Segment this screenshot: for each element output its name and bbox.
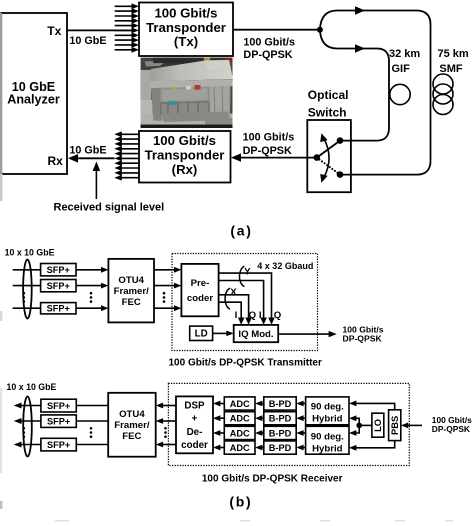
svg-text:coder: coder: [181, 440, 208, 451]
label: 100 Gbit/s DP-QPSK (rx): [243, 132, 295, 157]
bundle ellipse (tx): [23, 260, 32, 319]
svg-text:OTU4: OTU4: [119, 409, 145, 420]
svg-text:10 GbE: 10 GbE: [69, 35, 106, 47]
arrow: B-PD2 to ADC2: [255, 415, 264, 421]
switch: dotted contact arm: [317, 158, 340, 175]
svg-text:ADC: ADC: [230, 414, 250, 424]
node: splitter junction: [317, 27, 323, 33]
arrow: ADC4 to DSP: [213, 445, 224, 451]
arrow: X-Q into IQ Mod: [238, 318, 245, 325]
dots (tx left): [23, 292, 26, 303]
svg-text:Hybrid: Hybrid: [312, 413, 343, 424]
svg-text:+: +: [192, 414, 198, 425]
box: Pre-coder: [181, 264, 218, 316]
box: LD: [190, 326, 213, 340]
svg-text:75 km: 75 km: [438, 48, 469, 60]
arrow: tx fan row 7: [115, 32, 139, 38]
arrow: Hybrid to B-PD2: [296, 415, 305, 421]
box: ADC 2: [224, 412, 255, 425]
svg-text:LD: LD: [195, 329, 208, 340]
box: ADC 3: [224, 426, 255, 439]
wire: X-Q precoder output: [219, 302, 242, 319]
svg-text:Framer/: Framer/: [114, 286, 150, 297]
box: LO: [372, 413, 384, 437]
svg-text:OTU4: OTU4: [118, 275, 144, 286]
svg-text:ADC: ADC: [230, 428, 250, 438]
labels: I Q I Q: [235, 310, 282, 321]
arrow: tx fan row 4: [115, 18, 139, 24]
arrow: tx fan main row: [115, 28, 139, 34]
arrow: ADC1 to DSP: [213, 401, 224, 407]
arrow: tx fan row 8: [115, 37, 139, 43]
box: IQ Mod.: [234, 325, 279, 342]
scan-edge gray strip: [0, 13, 2, 509]
label: 75 km SMF: [438, 48, 469, 75]
bundle arc X: [225, 288, 230, 309]
svg-text:10 x 10 GbE: 10 x 10 GbE: [7, 382, 57, 392]
switch: lower port node: [337, 171, 344, 178]
box: 90 deg. Hybrid 1: [306, 397, 349, 425]
wire: LO branch to Hybrid 1: [349, 415, 359, 425]
wire: tx input line 3: [13, 307, 41, 309]
wire: transponder Tx output to node: [233, 29, 320, 31]
arrow: SFP+ to OTU4 line 1: [76, 267, 108, 273]
coil: 32 km GIF fiber: [390, 84, 410, 104]
svg-text:Y: Y: [244, 266, 251, 277]
wire: Y-Q precoder output: [219, 281, 264, 320]
svg-text:B-PD: B-PD: [269, 443, 292, 453]
arrow: Y-I into IQ Mod: [268, 318, 275, 325]
svg-text:Tx: Tx: [47, 24, 61, 38]
dots (rx mid): [90, 427, 93, 438]
arrow: rx fan row 7: [114, 160, 139, 166]
box: SFP+ tx 3: [41, 303, 76, 314]
bundle ellipse (rx): [23, 397, 32, 457]
svg-text:90 deg.: 90 deg.: [311, 402, 344, 413]
arrow: Hybrid to B-PD4: [296, 445, 305, 451]
svg-text:100 Gbit/s DP-QPSK Transmitter: 100 Gbit/s DP-QPSK Transmitter: [169, 358, 322, 369]
arrow: X-I into IQ Mod: [245, 318, 252, 325]
svg-text:PBS: PBS: [389, 416, 400, 435]
switch: toggle arc arrow: [320, 133, 329, 183]
box: ADC 4: [224, 441, 255, 454]
arrow: Hybrid to B-PD3: [296, 430, 305, 436]
box: B-PD 4: [264, 441, 296, 454]
wire: LO to splitter node: [359, 424, 372, 426]
svg-text:Q: Q: [274, 310, 282, 321]
svg-text:ADC: ADC: [230, 443, 250, 453]
svg-text:100 Gbit/s: 100 Gbit/s: [243, 132, 295, 144]
box: B-PD 1: [264, 397, 296, 410]
box: B-PD 3: [264, 426, 296, 439]
wire: path B lower loop via 32km GIF: [320, 30, 389, 141]
svg-text:Framer/: Framer/: [114, 420, 150, 431]
svg-text:Hybrid: Hybrid: [312, 443, 343, 454]
dots (tx mid): [90, 292, 93, 303]
arrow: ADC3 to DSP: [213, 430, 224, 436]
arrow: rx fan row 1: [114, 131, 139, 137]
arrow: OTU4 to Pre-coder line 1: [154, 267, 181, 273]
arrow: DSP to OTU4 line 1: [156, 403, 176, 409]
svg-text:Rx: Rx: [48, 154, 64, 168]
svg-text:LO: LO: [372, 419, 383, 432]
svg-text:DSP: DSP: [184, 400, 205, 411]
svg-text:DP-QPSK: DP-QPSK: [243, 145, 292, 157]
svg-text:SFP+: SFP+: [47, 304, 70, 314]
arrow: B-PD4 to ADC4: [255, 445, 264, 451]
svg-text:4 x 32 Gbaud: 4 x 32 Gbaud: [257, 261, 313, 271]
svg-text:Transponder: Transponder: [146, 20, 226, 35]
svg-text:DP-QPSK: DP-QPSK: [343, 334, 383, 344]
box: 100 Gbit/s Transponder (Rx): [139, 131, 231, 183]
arrow: rx output line 3: [14, 442, 41, 448]
box: SFP+ rx 1: [41, 399, 76, 412]
box: 100 Gbit/s Transponder (Tx): [139, 3, 233, 57]
switch: solid contact arm: [317, 141, 340, 158]
box: ADC 1: [224, 397, 255, 410]
box: DSP + De-coder: [176, 396, 213, 453]
svg-text:Transponder: Transponder: [145, 147, 225, 162]
arrow: input into PBS: [401, 423, 422, 429]
node: LO splitter: [356, 423, 362, 429]
box: Optical Switch: [307, 88, 351, 192]
svg-text:B-PD: B-PD: [269, 414, 292, 424]
wire: LO branch to Hybrid 2: [349, 425, 359, 436]
svg-text:SMF: SMF: [439, 63, 463, 75]
svg-text:FEC: FEC: [122, 297, 141, 308]
svg-text:SFP+: SFP+: [47, 401, 70, 411]
svg-text:SFP+: SFP+: [47, 440, 70, 450]
svg-text:Optical: Optical: [308, 88, 349, 102]
arrow: Y-Q into IQ Mod: [260, 318, 267, 325]
wire: switch common to Rx transponder: [231, 153, 317, 161]
dots (rx left): [23, 427, 26, 438]
arrow: rx fan row 5: [114, 151, 139, 157]
svg-text:Pre-: Pre-: [191, 278, 210, 289]
arrow: rx fan row 10: [114, 175, 139, 181]
arrow: rx output line 1: [14, 403, 41, 409]
svg-text:(b): (b): [229, 494, 252, 510]
arrow: tx fan row 9: [115, 42, 139, 48]
box: PBS: [389, 410, 401, 441]
photo: equipment photograph: [141, 58, 233, 128]
svg-text:32 km: 32 km: [389, 48, 420, 60]
arrow: rx output line 2: [14, 418, 41, 424]
label: 100 Gbit/s DP-QPSK (tx output): [343, 324, 384, 343]
box: OTU4 Framer/FEC (tx): [108, 259, 154, 323]
svg-text:SFP+: SFP+: [47, 265, 70, 275]
box: 10 GbE Analyzer: [1, 13, 67, 174]
svg-text:Switch: Switch: [308, 106, 347, 120]
label: 100 Gbit/s DP-QPSK (rx input): [432, 415, 472, 434]
svg-text:X: X: [230, 287, 237, 298]
svg-text:(Rx): (Rx): [172, 162, 198, 177]
wire: rx fan to analyzer Rx with arrow: [68, 154, 115, 163]
arrow: B-PD3 to ADC3: [255, 430, 264, 436]
arrow: rx fan row 4: [114, 146, 139, 152]
svg-text:FEC: FEC: [122, 431, 141, 442]
arrow: B-PD1 to ADC1: [255, 401, 264, 407]
svg-text:De-: De-: [187, 427, 203, 438]
box: 90 deg. Hybrid 2: [306, 426, 349, 454]
svg-text:90 deg.: 90 deg.: [311, 432, 344, 443]
arrow: DSP to OTU4 line 3: [156, 442, 176, 448]
switch: upper port node: [337, 137, 344, 144]
arrow: rx fan row 3: [114, 141, 139, 147]
arrow: rx fan row 8: [114, 165, 139, 171]
dashed box: transmitter outline: [172, 254, 318, 351]
wire: Y-I precoder output: [219, 273, 272, 319]
switch: common node: [314, 154, 321, 161]
arrow: SFP+ to OTU4 line 2: [76, 283, 108, 289]
arrow: DSP to OTU4 line 2: [156, 418, 176, 424]
arrow: OTU4 to Pre-coder line 3: [154, 305, 181, 311]
arrow: tx fan row 2: [115, 8, 139, 14]
box: SFP+ rx 2: [41, 415, 76, 428]
wire: tx input line 2: [13, 285, 41, 287]
wire: X-I precoder output: [219, 295, 249, 319]
svg-text:DP-QPSK: DP-QPSK: [243, 49, 292, 61]
box: SFP+ rx 3: [41, 438, 76, 451]
arrow: rx fan main row: [114, 156, 139, 162]
wire: path A upper loop via 75km SMF: [320, 6, 431, 174]
svg-text:DP-QPSK: DP-QPSK: [432, 424, 470, 434]
svg-text:coder: coder: [187, 293, 213, 304]
arrow: tx fan row 3: [115, 13, 139, 19]
svg-text:I: I: [235, 310, 238, 321]
svg-text:Q: Q: [249, 310, 257, 321]
wire: tx input line 1: [13, 269, 41, 271]
dots (rx otu4-dsp): [164, 427, 167, 438]
dots (tx otu4-precoder): [163, 292, 166, 303]
arrow: rx fan row 2: [114, 136, 139, 142]
dashed box: receiver outline: [168, 383, 409, 465]
faint bottom specks: [55, 520, 453, 522]
svg-text:(a): (a): [230, 222, 252, 238]
svg-text:I: I: [259, 310, 262, 321]
svg-text:B-PD: B-PD: [269, 399, 292, 409]
arrow: received signal level pointer: [93, 162, 101, 200]
arrow: tx fan row 1: [115, 3, 139, 9]
svg-text:10 x 10 GbE: 10 x 10 GbE: [5, 247, 55, 257]
wire: OTU4 to SFP+ line 1: [76, 405, 108, 407]
arrow: LD to IQ Mod: [213, 331, 234, 337]
svg-text:Received signal level: Received signal level: [54, 201, 165, 213]
arrow: SFP+ to OTU4 line 3: [76, 305, 108, 311]
box: SFP+ tx 2: [41, 280, 76, 292]
wire: PBS upper output to Hybrid 1: [349, 401, 395, 410]
coil: 75 km SMF fiber: [433, 74, 453, 115]
svg-text:SFP+: SFP+: [47, 416, 70, 426]
svg-text:GIF: GIF: [392, 63, 411, 75]
wire: OTU4 to SFP+ line 3: [76, 444, 108, 446]
arrow: tx fan row 10: [115, 47, 139, 53]
svg-text:100 Gbit/s: 100 Gbit/s: [243, 36, 295, 48]
box: OTU4 Framer/FEC (rx): [108, 393, 156, 457]
arrow: IQ Mod output: [278, 331, 337, 337]
svg-text:10 GbE: 10 GbE: [69, 145, 106, 157]
wire: analyzer Tx to transponder: [67, 29, 133, 31]
box: B-PD 2: [264, 412, 296, 425]
svg-text:100 Gbit/s: 100 Gbit/s: [153, 133, 216, 148]
arrow: OTU4 to Pre-coder line 2: [154, 283, 181, 289]
label: 32 km GIF: [389, 48, 420, 75]
svg-text:100 Gbit/s DP-QPSK Receiver: 100 Gbit/s DP-QPSK Receiver: [202, 473, 343, 484]
arrow: ADC2 to DSP: [213, 415, 224, 421]
arrow: rx fan row 9: [114, 170, 139, 176]
label: 100 Gbit/s DP-QPSK (tx): [243, 36, 295, 60]
svg-text:IQ Mod.: IQ Mod.: [238, 329, 273, 340]
arrow: tx fan row 5: [115, 23, 139, 29]
wire: OTU4 to SFP+ line 2: [76, 420, 108, 422]
svg-text:100 Gbit/s: 100 Gbit/s: [154, 6, 217, 21]
wire: PBS lower output to Hybrid 2: [349, 441, 395, 451]
svg-text:SFP+: SFP+: [47, 281, 70, 291]
svg-text:B-PD: B-PD: [269, 428, 292, 438]
bundle arc Y: [239, 266, 244, 286]
svg-text:Analyzer: Analyzer: [7, 93, 60, 107]
svg-text:(Tx): (Tx): [174, 34, 198, 49]
svg-text:ADC: ADC: [230, 399, 250, 409]
arrow: Hybrid to B-PD1: [296, 401, 305, 407]
box: SFP+ tx 1: [41, 264, 76, 276]
